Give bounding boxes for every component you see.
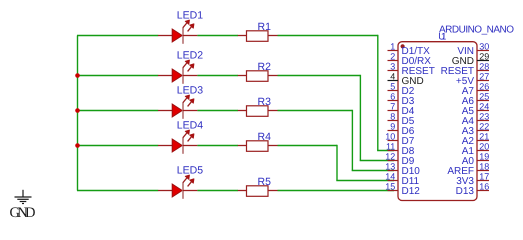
svg-text:GND: GND: [10, 205, 36, 221]
pin 30 (VIN) stub: [477, 50, 489, 52]
pin 2 (D0/RX) stub: [388, 60, 399, 62]
ground symbol: [15, 190, 32, 204]
pin 26 (A7) stub: [477, 90, 489, 92]
svg-text:LED1: LED1: [177, 10, 203, 22]
wire: LED1 cathode to R1: [197, 35, 238, 37]
svg-text:21: 21: [479, 132, 489, 142]
svg-text:ARDUINO_NANO: ARDUINO_NANO: [439, 24, 514, 35]
svg-text:29: 29: [479, 52, 489, 62]
svg-text:D13: D13: [456, 186, 475, 197]
pin 22 (A3) stub: [477, 130, 489, 132]
pin 1 (D1/TX) stub: [388, 50, 399, 52]
LED LED1: [158, 20, 197, 44]
pin 21 (A2) stub: [477, 140, 489, 142]
svg-text:LED4: LED4: [177, 120, 203, 132]
svg-text:10: 10: [385, 132, 395, 142]
wire: bus to LED2 anode: [77, 75, 158, 77]
pin 12 (D9) stub: [388, 160, 399, 162]
svg-text:19: 19: [479, 152, 489, 162]
pin 9 (D6) stub: [388, 130, 399, 132]
pin 28 (RESET) stub: [477, 70, 489, 72]
junction at bus row 2: [75, 73, 80, 78]
svg-text:7: 7: [390, 102, 395, 112]
pin 27 (+5V) stub: [477, 80, 489, 82]
svg-text:4: 4: [390, 72, 395, 82]
svg-text:12: 12: [385, 152, 395, 162]
pin 19 (A0) stub: [477, 160, 489, 162]
pin 7 (D4) stub: [388, 110, 399, 112]
junction at bus row 4: [75, 143, 80, 148]
junction at bus row 3: [75, 108, 80, 113]
svg-text:U1: U1: [438, 31, 446, 42]
pin 5 (D2) stub: [388, 90, 399, 92]
svg-text:26: 26: [479, 82, 489, 92]
svg-text:25: 25: [479, 92, 489, 102]
svg-text:LED3: LED3: [177, 85, 203, 97]
pin 4 (GND) stub: [388, 80, 399, 82]
LED LED2: [158, 60, 197, 84]
wire: bus to LED1 anode: [77, 35, 158, 37]
pin 23 (A4) stub: [477, 120, 489, 122]
pin 10 (D7) stub: [388, 140, 399, 142]
LED LED3: [158, 95, 197, 119]
wire: LED5 cathode to R5: [197, 190, 238, 192]
pin 11 (D8) stub: [388, 150, 399, 152]
svg-text:8: 8: [390, 112, 395, 122]
svg-text:R4: R4: [258, 131, 272, 143]
svg-text:28: 28: [479, 62, 489, 72]
svg-text:13: 13: [385, 162, 395, 172]
op-amp/IC U1 ARDUINO_NANO body: [398, 42, 477, 201]
svg-text:18: 18: [479, 162, 489, 172]
resistor R4: [238, 141, 278, 152]
svg-text:R1: R1: [258, 21, 272, 33]
pin 14 (D11) stub: [388, 180, 399, 182]
wire: R2 to U1 pin 12: [278, 75, 395, 161]
pin 17 (3V3) stub: [477, 180, 489, 182]
svg-text:9: 9: [390, 122, 395, 132]
resistor R3: [238, 106, 278, 117]
svg-text:17: 17: [479, 172, 489, 182]
svg-text:5: 5: [390, 82, 395, 92]
wire: R4 to U1 pin 14: [278, 145, 395, 181]
svg-text:11: 11: [386, 142, 395, 152]
pin 29 (GND) stub: [477, 60, 489, 62]
LED LED5: [158, 175, 197, 199]
svg-text:16: 16: [479, 182, 489, 192]
resistor R5: [238, 186, 278, 197]
pin 15 (D12) stub: [388, 190, 399, 192]
resistor R2: [238, 71, 278, 82]
wire: LED2 cathode to R2: [197, 75, 238, 77]
svg-text:14: 14: [385, 172, 395, 182]
wire: bus to LED3 anode: [77, 110, 158, 112]
svg-text:R5: R5: [258, 176, 272, 188]
pin 25 (A6) stub: [477, 100, 489, 102]
svg-text:1: 1: [390, 42, 395, 52]
pin 16 (D13) stub: [477, 190, 489, 192]
svg-text:R2: R2: [258, 61, 272, 73]
wire: LED4 cathode to R4: [197, 145, 238, 147]
wire: LED3 cathode to R3: [197, 110, 238, 112]
svg-text:LED5: LED5: [177, 165, 203, 177]
wire: R1 to U1 pin 11: [278, 35, 395, 151]
svg-text:R3: R3: [258, 96, 272, 108]
LED LED4: [158, 130, 197, 154]
svg-text:LED2: LED2: [177, 50, 203, 62]
wire: left vertical bus: [77, 36, 79, 191]
pin-1 marker dot: [401, 44, 405, 48]
wire: bus to LED5 anode: [77, 190, 158, 192]
wire: bus to LED4 anode: [77, 145, 158, 147]
wire: R3 to U1 pin 13: [278, 110, 395, 171]
svg-text:D12: D12: [402, 186, 421, 197]
svg-text:22: 22: [479, 122, 489, 132]
svg-text:3: 3: [390, 62, 395, 72]
pin 18 (AREF) stub: [477, 170, 489, 172]
pin 13 (D10) stub: [388, 170, 399, 172]
svg-text:20: 20: [479, 142, 489, 152]
pin 6 (D3) stub: [388, 100, 399, 102]
wire: R5 to U1 pin 15: [278, 190, 395, 192]
pin 24 (A5) stub: [477, 110, 489, 112]
svg-text:15: 15: [385, 182, 395, 192]
pin 3 (RESET) stub: [388, 70, 399, 72]
svg-text:24: 24: [479, 102, 489, 112]
svg-text:6: 6: [390, 92, 395, 102]
svg-text:2: 2: [390, 52, 395, 62]
resistor R1: [238, 31, 278, 42]
pin 20 (A1) stub: [477, 150, 489, 152]
svg-text:23: 23: [479, 112, 489, 122]
pin 8 (D5) stub: [388, 120, 399, 122]
svg-text:30: 30: [479, 42, 489, 52]
svg-text:27: 27: [479, 72, 489, 82]
